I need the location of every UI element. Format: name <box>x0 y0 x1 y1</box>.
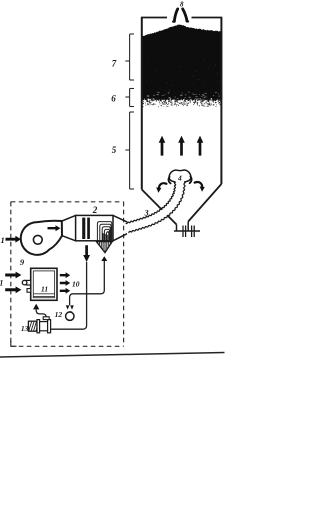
svg-text:12: 12 <box>55 310 63 319</box>
svg-text:5: 5 <box>112 145 117 155</box>
svg-text:11: 11 <box>41 284 48 293</box>
svg-text:13: 13 <box>21 324 29 333</box>
svg-text:3: 3 <box>144 209 149 218</box>
svg-text:2: 2 <box>92 205 98 215</box>
svg-text:4: 4 <box>177 173 182 182</box>
svg-text:6: 6 <box>111 93 116 103</box>
svg-text:7: 7 <box>112 58 117 68</box>
svg-text:8: 8 <box>180 0 184 8</box>
svg-text:1: 1 <box>0 235 4 245</box>
svg-text:1: 1 <box>0 278 3 287</box>
svg-text:10: 10 <box>72 279 80 288</box>
